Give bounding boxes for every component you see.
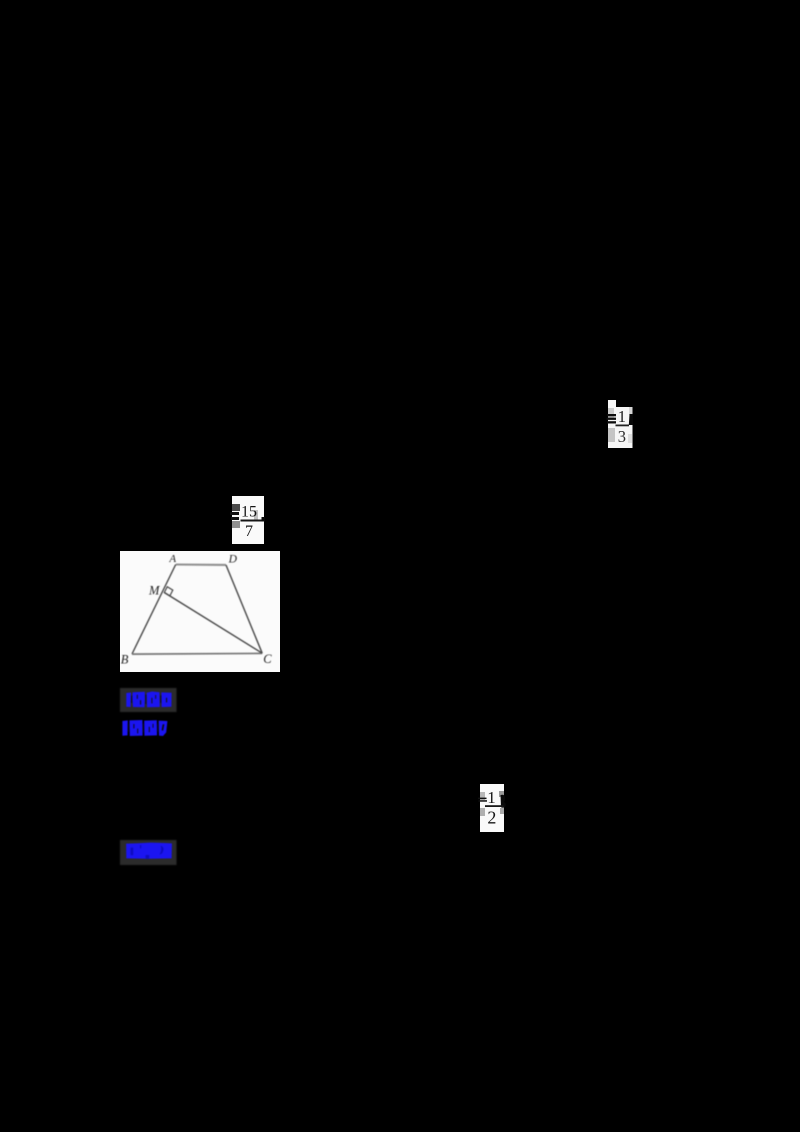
narrow white column bbox=[608, 400, 616, 448]
fraction =1/3 bbox=[602, 396, 638, 452]
blue label 1 (answer tag) with gray highlight bbox=[118, 686, 180, 714]
svg-text:7: 7 bbox=[245, 523, 253, 540]
bottom edge BC bbox=[132, 652, 262, 655]
svg-text:15: 15 bbox=[241, 504, 257, 521]
gray smudge left bottom bbox=[232, 521, 240, 528]
side AB bbox=[132, 565, 176, 655]
svg-text:B: B bbox=[121, 652, 129, 666]
fraction =1/2 bbox=[474, 782, 510, 836]
white patch bbox=[480, 784, 504, 832]
fraction bar bbox=[241, 520, 262, 522]
wide white part bbox=[616, 407, 633, 448]
fraction bar bbox=[616, 425, 630, 427]
gray smudges bbox=[480, 792, 485, 800]
trapezoid figure box bbox=[120, 551, 280, 672]
gray smudges bbox=[608, 408, 614, 418]
white patch bbox=[232, 496, 264, 544]
comma right bbox=[262, 517, 266, 522]
top edge AD bbox=[176, 563, 226, 566]
svg-text:1: 1 bbox=[618, 407, 626, 426]
gray highlight box bbox=[120, 840, 177, 865]
cevian MC bbox=[164, 593, 262, 654]
blue label 2 (analysis tag) bbox=[118, 716, 174, 740]
gray highlight box bbox=[120, 688, 177, 712]
blue glyph blob bbox=[126, 692, 171, 708]
svg-text:D: D bbox=[228, 553, 238, 565]
svg-text:A: A bbox=[168, 553, 176, 565]
svg-text:M: M bbox=[148, 584, 160, 598]
svg-text:3: 3 bbox=[618, 427, 626, 446]
right angle mark at M bbox=[164, 587, 173, 596]
equals sign (triple bar look) bbox=[607, 414, 616, 416]
gray smudge left top bbox=[232, 504, 240, 511]
fraction =15/7 bbox=[228, 494, 268, 548]
black equals marks left bbox=[230, 512, 239, 515]
svg-text:C: C bbox=[263, 652, 272, 666]
comma right bbox=[629, 414, 633, 425]
blue label 3 (answer tag) with gray highlight bbox=[118, 838, 180, 867]
white background bbox=[120, 551, 280, 672]
equals sign bbox=[478, 798, 487, 800]
light notch right of 15 bbox=[254, 510, 258, 520]
svg-text:2: 2 bbox=[487, 808, 496, 828]
g blob right bbox=[501, 795, 506, 808]
svg-text:1: 1 bbox=[487, 788, 496, 807]
blue glyph blob (solid) bbox=[126, 843, 172, 859]
fraction bar bbox=[485, 805, 504, 807]
blue glyph blob bbox=[122, 720, 167, 736]
side DC bbox=[226, 565, 262, 653]
